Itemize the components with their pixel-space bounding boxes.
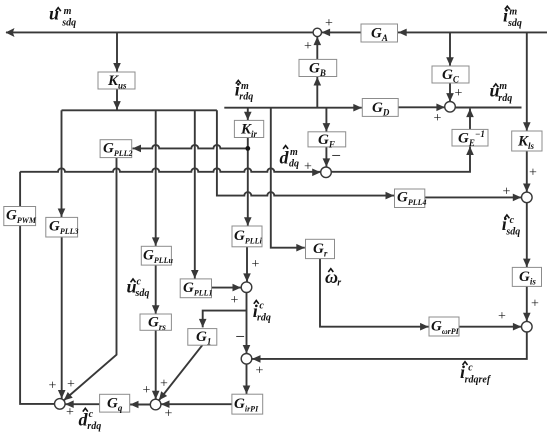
- arrowhead Gis to S7: [523, 313, 531, 322]
- arrowhead bus into S3: [312, 169, 321, 177]
- arrowhead into GPLL1: [191, 270, 199, 279]
- arrowhead into GPLL3: [58, 209, 66, 218]
- svg-text:dq: dq: [289, 158, 299, 169]
- svg-text:+: +: [529, 166, 537, 181]
- wire GPLL3 output to sum9: [61, 237, 63, 399]
- wire GPLL1 output to sum5: [212, 287, 242, 289]
- svg-text:c: c: [468, 363, 473, 374]
- svg-text:rdqref: rdqref: [465, 375, 492, 386]
- arrowhead Kls to S4: [523, 184, 531, 193]
- block GA: [361, 24, 398, 42]
- arrowhead feedback to S6: [252, 355, 261, 363]
- wire GPLLu output to Grs: [155, 265, 157, 314]
- block GPLL2: [100, 140, 132, 158]
- svg-text:sdq: sdq: [135, 288, 150, 299]
- arrowhead into Kus: [113, 63, 121, 72]
- arrowhead into GE-1: [466, 147, 474, 156]
- svg-text:rdq: rdq: [239, 92, 253, 103]
- wire GD output to sum2: [398, 106, 445, 108]
- sum junction S2: [445, 102, 456, 113]
- svg-text:m: m: [499, 81, 507, 92]
- wire Kls output to sum4: [526, 151, 528, 192]
- wire GesrPI output to sum7: [459, 326, 521, 328]
- sum junction S1: [313, 28, 321, 36]
- arrowhead Kus into bus: [113, 101, 121, 110]
- block Grs: [140, 314, 171, 330]
- wire G1 output diagonal to sum8: [159, 345, 202, 400]
- arrowhead GesrPI to S7: [513, 323, 522, 331]
- svg-text:+: +: [49, 379, 57, 394]
- svg-text:m: m: [64, 6, 72, 17]
- svg-text:+: +: [325, 16, 333, 31]
- block GD: [362, 99, 398, 117]
- svg-text:+: +: [455, 86, 463, 101]
- arrowhead into GesrPI: [420, 323, 429, 331]
- svg-text:+: +: [531, 297, 539, 312]
- svg-text:m: m: [290, 147, 298, 158]
- arrowhead into Gis: [523, 259, 531, 268]
- block GPLLu: [141, 246, 171, 265]
- svg-text:d: d: [280, 148, 290, 168]
- block Gq: [100, 394, 130, 412]
- block Kir: [234, 120, 263, 137]
- arrowhead GirPI to S8: [161, 400, 170, 408]
- wire GPLLi output to sum5: [246, 247, 248, 282]
- svg-text:−: −: [235, 327, 245, 346]
- wire GirPI output to sum8: [161, 403, 232, 405]
- arrowhead G1 to S8: [159, 391, 167, 400]
- arrowhead S6 to GirPI: [243, 386, 251, 395]
- svg-text:+: +: [304, 160, 312, 175]
- arrowhead into Grs: [152, 305, 160, 314]
- arrowhead GB to S1: [314, 37, 322, 46]
- arrowhead into GC: [446, 57, 454, 66]
- arrowhead GE-1 into u_rdq line: [466, 109, 474, 118]
- svg-text:+: +: [66, 405, 74, 420]
- svg-text:rdq: rdq: [87, 421, 101, 432]
- block GE-1: [452, 129, 488, 146]
- wire top output line (u_sdq): [6, 31, 361, 33]
- arrowhead into GPLL4: [386, 192, 395, 200]
- wire Kir drop: [247, 108, 249, 121]
- arrowhead into Gr: [296, 244, 305, 252]
- wire horizontal distribution line y110: [62, 109, 217, 111]
- arrowhead into GB: [314, 77, 322, 86]
- svg-text:+: +: [165, 407, 173, 422]
- wire sum9 output left and up through GPWM: [20, 172, 54, 404]
- wire top input line (i_sdq): [398, 31, 547, 33]
- wire sum8 output to Gq: [130, 404, 150, 406]
- arrowhead GPLL2 diagonal to S9: [64, 392, 73, 400]
- svg-text:+: +: [503, 185, 511, 200]
- svg-text:sdq: sdq: [507, 18, 522, 29]
- wire i_rdq up to GB: [316, 77, 318, 108]
- wire GPLL4 output to sum4: [425, 196, 522, 198]
- svg-text:r: r: [337, 278, 341, 289]
- wire GE-1 output up: [469, 109, 471, 130]
- block GPLL3: [46, 217, 78, 237]
- wire sum7 output feedback i_rdqref: [252, 332, 527, 359]
- block Gis: [512, 267, 541, 286]
- svg-text:sdq: sdq: [505, 227, 520, 238]
- sum junction S9: [55, 399, 66, 410]
- arrowhead GF to S3: [323, 158, 331, 167]
- svg-text:+: +: [304, 39, 312, 54]
- arrowhead GC to S2: [446, 93, 454, 102]
- block GesrPI: [429, 317, 459, 336]
- svg-text:+: +: [143, 383, 151, 398]
- svg-text:c: c: [137, 276, 142, 287]
- wire u_rdq output line: [455, 107, 521, 109]
- block GPLL1: [180, 279, 211, 298]
- svg-text:c: c: [510, 215, 515, 226]
- wire Grs output to sum8: [155, 330, 157, 399]
- block GC: [432, 66, 469, 83]
- arrowhead into GPLLu: [152, 237, 160, 246]
- sum junction S3: [321, 167, 332, 178]
- wire drop to GPLLu: [155, 110, 157, 246]
- arrowhead S5 to S6: [243, 345, 251, 354]
- arrowhead GPLLi to S5: [243, 273, 251, 282]
- block Kus: [98, 72, 135, 89]
- wire GPLL2 input line from node: [133, 145, 248, 148]
- wire GC output to sum2: [449, 83, 451, 102]
- wire branch to G1: [203, 311, 247, 328]
- wire GPLL2 output down and diagonal to sum9: [64, 158, 117, 401]
- arrowhead Grs to S8: [152, 391, 160, 400]
- svg-text:+: +: [256, 364, 264, 379]
- block Gr: [306, 239, 335, 258]
- wire drop to Kus: [116, 32, 118, 71]
- svg-text:sdq: sdq: [61, 18, 76, 29]
- svg-text:rdq: rdq: [498, 93, 512, 104]
- arrowhead into GPLL2: [133, 145, 142, 153]
- svg-text:c: c: [89, 409, 94, 420]
- arrowhead into G1: [199, 319, 207, 328]
- arrowhead Gq to S9: [65, 400, 74, 408]
- block GirPI: [232, 394, 263, 414]
- arrowhead into Kls: [523, 122, 531, 131]
- wire GB output to sum1: [316, 37, 318, 60]
- sum junction S5: [241, 282, 252, 293]
- svg-text:m: m: [509, 7, 517, 18]
- wire Kus output into bus: [116, 89, 118, 110]
- arrowhead into GPLLi: [244, 217, 252, 226]
- node junction dot below Kir: [245, 146, 250, 151]
- wire i_rdq bus: [224, 107, 361, 109]
- svg-text:−: −: [331, 146, 341, 165]
- wire i_rdq to Gr: [271, 108, 305, 248]
- svg-text:+: +: [231, 293, 239, 308]
- wire drop to GPLL3: [61, 110, 63, 217]
- wire GF drop: [325, 108, 327, 132]
- sum junction S7: [522, 321, 533, 332]
- wire Kls drop: [526, 32, 528, 130]
- block GPLLi: [232, 226, 262, 247]
- wire Kir output to GPLLi: [247, 138, 249, 226]
- block GPLL4: [395, 189, 425, 208]
- wire Gq output to sum9: [65, 403, 99, 405]
- arrowhead output left: [6, 28, 15, 37]
- arrowhead into GF: [323, 123, 331, 132]
- arrowhead GPLL1 to S5: [233, 284, 242, 292]
- svg-text:+: +: [160, 377, 168, 392]
- wire sum6 output to GirPI: [246, 364, 248, 394]
- arrowhead into GD: [353, 104, 362, 112]
- wire GC drop: [449, 32, 451, 65]
- svg-text:+: +: [67, 377, 75, 392]
- wire Gis output to sum7: [526, 286, 528, 321]
- svg-text:c: c: [259, 300, 264, 311]
- wire drop and GPLL4 input line: [217, 110, 394, 195]
- wire drop to GPLL1: [194, 110, 196, 278]
- sum junction S6: [241, 354, 252, 365]
- sum junction S4: [522, 192, 533, 203]
- svg-text:+: +: [252, 257, 260, 272]
- arrowhead into GA: [398, 29, 407, 37]
- svg-text:rdq: rdq: [257, 313, 271, 324]
- wire GF output to sum3: [325, 147, 327, 167]
- arrowhead GD to S2: [436, 104, 445, 112]
- arrowhead GPLL4 to S4: [513, 194, 522, 202]
- block GPWM: [4, 207, 36, 226]
- arrowhead into Kir: [244, 112, 252, 121]
- wire sum4 output to Gis: [526, 203, 528, 267]
- arrowhead S8 to Gq: [130, 401, 139, 409]
- block G1: [188, 329, 217, 346]
- block Kls: [512, 131, 542, 151]
- block GF: [308, 132, 346, 147]
- block GB: [299, 59, 337, 76]
- arrowhead GPLL3 to S9: [58, 390, 66, 399]
- wire sum5 output to sum6: [246, 293, 248, 354]
- svg-text:+: +: [434, 111, 442, 126]
- wire Gr output to GesrPI: [320, 259, 429, 327]
- svg-text:m: m: [241, 81, 249, 92]
- svg-text:u: u: [49, 4, 59, 24]
- sum junction S8: [150, 399, 161, 410]
- wire main d bus y171.8 with humps: [20, 147, 470, 172]
- arrowhead GA to S1: [322, 29, 331, 37]
- svg-text:+: +: [498, 309, 506, 324]
